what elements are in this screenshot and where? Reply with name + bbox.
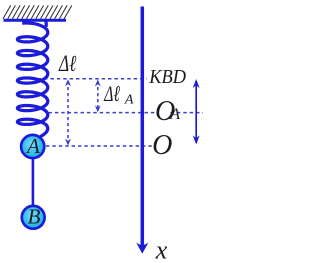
spring coil xyxy=(17,23,47,124)
svg-text:Δℓ: Δℓ xyxy=(104,81,121,106)
x axis line xyxy=(141,7,145,247)
dashed level line KBD xyxy=(19,78,148,80)
ceiling hatch xyxy=(3,5,72,18)
spring top connector xyxy=(45,19,46,27)
rod A-B xyxy=(32,158,35,206)
dashed level line O xyxy=(46,145,153,147)
svg-text:A: A xyxy=(124,92,134,107)
svg-text:Δℓ: Δℓ xyxy=(58,51,76,76)
ceiling line xyxy=(4,19,67,22)
dashed arrow Delta-l_A (x=97) xyxy=(95,79,101,112)
svg-text:A: A xyxy=(169,106,180,123)
spring bottom hook xyxy=(40,124,47,137)
svg-text:x: x xyxy=(155,235,168,263)
dashed level line O_A xyxy=(49,112,155,114)
right measure arrow (KBD to O) xyxy=(193,79,200,145)
svg-text:O: O xyxy=(152,130,172,161)
x axis arrowhead xyxy=(136,243,148,254)
svg-text:KBD: KBD xyxy=(148,66,186,88)
ball B xyxy=(22,206,45,229)
svg-text:B: B xyxy=(28,204,41,228)
svg-text:A: A xyxy=(25,134,40,158)
ball A xyxy=(21,135,44,158)
dashed arrow Delta-l (x=67.8) xyxy=(65,79,71,145)
